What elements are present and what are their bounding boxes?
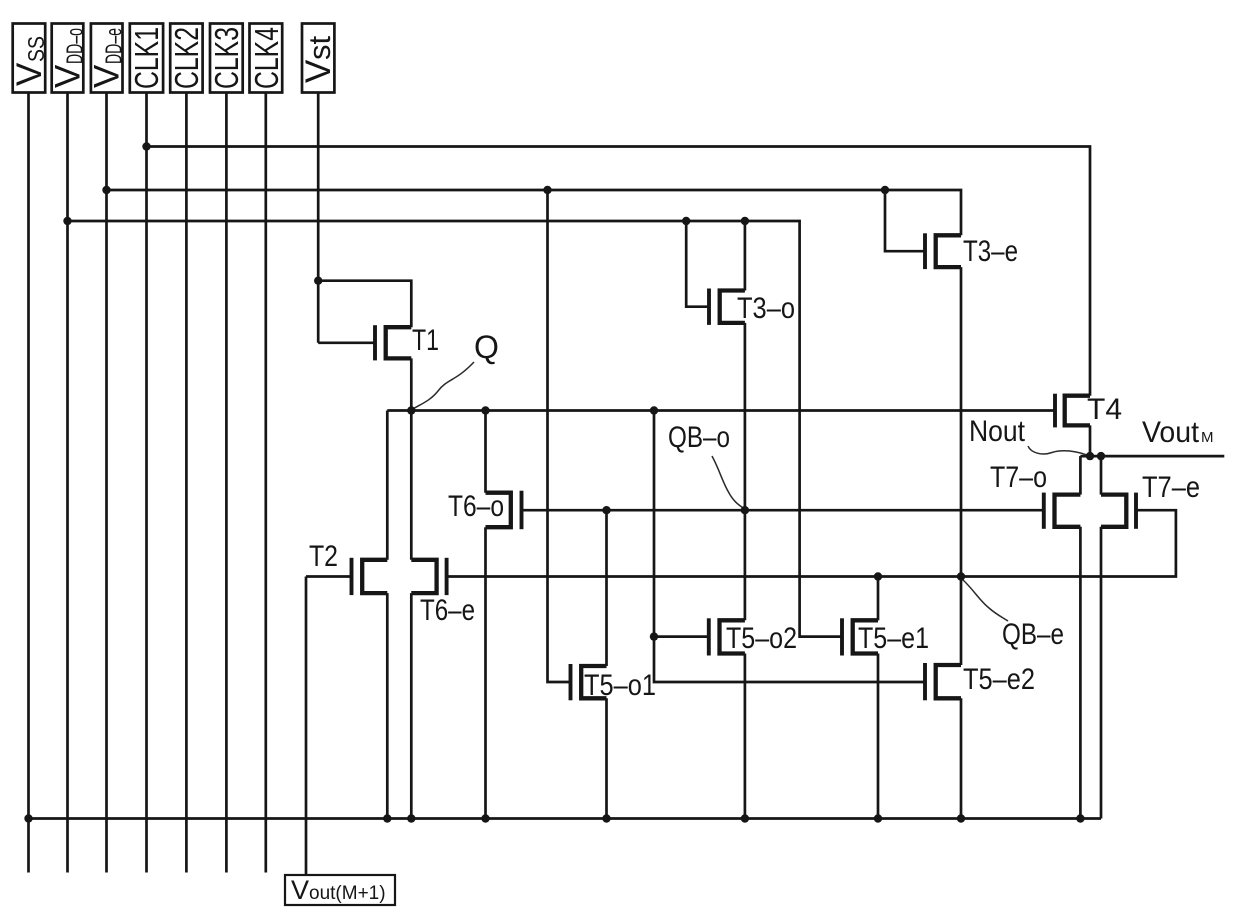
transistor T6-o [486,493,511,528]
junction node Q to T5 gate branch [650,406,658,414]
transistor T5-o2 [720,620,745,653]
wire Vst vertical [317,93,320,343]
svg-text:Nout: Nout [969,415,1026,448]
junction bus T5-o2 source [741,814,749,822]
transistor T3-e [936,235,961,267]
leader QB-e [962,579,1008,621]
leader Nout [1028,446,1088,455]
junction bus T2 source [383,814,391,822]
terminal box CLK4 [250,24,283,93]
svg-text:T5–e2: T5–e2 [963,663,1035,696]
junction Q branch to T5-o2 gate [650,632,658,640]
terminal box Vst [302,24,334,93]
transistor T7-e [1101,495,1126,527]
wire T2 gate to Vout(M+1) [305,577,308,876]
transistor T1 [386,327,412,358]
terminal box Vout(M+1) [285,875,395,905]
terminal box CLK2 [170,24,202,93]
wire T5-o1 drain from QB-o [605,510,608,666]
wire T5-o2 source to bus [744,654,747,819]
svg-text:V: V [88,64,127,88]
wire T5-e1 drain from QB-e [877,577,880,621]
svg-text:T4: T4 [1087,393,1122,426]
svg-text:QB–e: QB–e [1002,618,1064,651]
junction bus T5-e1 source [874,814,882,822]
junction VDD-o rail tap [63,217,71,225]
svg-text:T7–o: T7–o [990,461,1047,494]
svg-text:T5–e1: T5–e1 [858,622,929,655]
leader QB-o [712,456,745,509]
svg-text:CLK2: CLK2 [168,27,205,89]
transistor T5-o1 [581,666,606,698]
wire VDD-e vertical [105,93,108,873]
wire Vst branch to T1 drain [318,281,411,328]
svg-text:V: V [10,62,49,86]
svg-text:V: V [299,59,338,83]
junction bus T6-o source [481,814,489,822]
wire T6-o drain [484,411,487,493]
junction node Nout at T4 source [1086,452,1094,460]
wire CLK4 vertical [264,93,267,873]
svg-text:SS: SS [23,36,49,62]
wire VDD-o rail down to T5-e1 gate [68,221,843,637]
junction Vst to T1 drain branch [314,277,322,285]
wire T6-e gate rail QB-e [447,510,1176,576]
svg-text:st: st [302,36,337,61]
wire T3-o gate branch [686,221,709,307]
wire T5-o1 source to bus [605,698,608,818]
junction VDD-e rail tap [102,186,110,194]
svg-text:CLK3: CLK3 [208,27,245,89]
wire T7 right vertical upper [1100,456,1103,495]
junction Vout rail to T7 drain [1097,452,1105,460]
junction node Q at T1 source [407,406,415,414]
wire T6-e source to bus [410,593,413,818]
terminal box CLK1 [130,24,163,93]
svg-text:T5–o2: T5–o2 [726,622,797,655]
junction VDD-e to T5-o1 gate branch [543,186,551,194]
transistor T5-e1 [853,620,878,653]
svg-text:QB–o: QB–o [668,421,730,454]
svg-text:V: V [49,64,88,88]
svg-text:T6–e: T6–e [420,594,475,627]
wire T3-o drain [744,221,747,291]
transistor T6-e [411,560,436,593]
junction bus T5-e2 source [957,814,965,822]
wire T1 gate feed [318,341,375,344]
svg-text:DD–o: DD–o [62,28,88,64]
wire QB-o rail T6-o gate to T7-o gate [522,509,1044,512]
terminal box VDD-o [52,24,84,93]
svg-text:CLK4: CLK4 [248,27,285,89]
wire T5-e2 source to bus [960,698,963,818]
wire T3-e source down to QB-e [960,267,963,576]
wire T3-o source down through QB-o to T5-o2 [744,323,747,620]
node Q rail [387,409,1055,412]
wire T5-o2 gate feed [654,635,709,638]
terminal box Vss [13,24,46,93]
wire T6-o source to bus [484,527,487,818]
wire VDD-e rail to T3-e drain [107,190,962,235]
transistor T7-o [1055,495,1081,527]
junction VDD-o to T3-o drain [741,217,749,225]
junction QB-o to T5-o1 drain [602,506,610,514]
junction Vss to bus [24,814,32,822]
wire CLK1 vertical [145,93,148,873]
transistor T2 [362,560,387,593]
terminal box VDD-e [91,24,123,93]
wire T7 left vertical upper [1079,456,1082,495]
svg-text:DD–e: DD–e [101,28,127,64]
svg-text:T1: T1 [412,324,439,357]
terminal box CLK3 [210,24,243,93]
svg-text:M: M [1201,429,1214,446]
svg-text:T2: T2 [309,540,338,573]
wire Vss bus [29,817,1102,820]
svg-text:T3–o: T3–o [737,292,795,325]
svg-text:T7–e: T7–e [1142,471,1200,504]
svg-text:T5–o1: T5–o1 [584,669,656,702]
wire VDD-o vertical [66,93,69,873]
junction VDD-e to T3-e gate branch [881,186,889,194]
wire CLK2 vertical [185,93,188,873]
junction bus T6-e source [407,814,415,822]
wire T7 right vertical lower to bus [1100,527,1103,819]
wire CLK3 vertical [225,93,228,873]
wire T1 source to node Q [410,358,413,410]
wire T2 drain [386,411,389,560]
junction node QB-e [957,572,965,580]
junction node Q to T6-o drain [481,406,489,414]
wire T7 left vertical lower to bus [1079,527,1082,819]
node Vout rail [1080,455,1224,458]
transistor T5-e2 [936,665,961,698]
junction bus T5-o1 source [602,814,610,822]
wire T4 source to Nout [1089,425,1092,456]
leader Q [412,362,474,410]
wire T2 gate feed [306,575,352,578]
wire node Q branch down to T5 gates [654,411,925,683]
wire VDD-e branch to T5-o1 gate [548,190,571,682]
junction CLK1 rail tap [142,142,150,150]
svg-text:Vout: Vout [1142,416,1200,449]
wire T6-e drain [410,411,413,560]
transistor T3-o [720,291,745,323]
wire CLK1 rail to T4 drain [147,147,1091,396]
wire T2 source to bus [386,593,389,818]
wire T5-e1 source to bus [877,654,880,819]
junction VDD-o to T3-o gate branch [682,217,690,225]
wire Vss vertical [27,93,30,873]
svg-text:CLK1: CLK1 [128,27,165,89]
svg-text:T3–e: T3–e [963,235,1018,268]
junction QB-e to T5-e1 drain [874,572,882,580]
svg-text:T6–o: T6–o [448,490,504,523]
wire T5-e2 drain [960,577,963,666]
svg-text:Q: Q [474,329,499,365]
wire T3-e gate branch [885,190,925,251]
junction node QB-o [741,506,749,514]
transistor T4 [1065,396,1090,426]
junction bus T7 source [1076,814,1084,822]
